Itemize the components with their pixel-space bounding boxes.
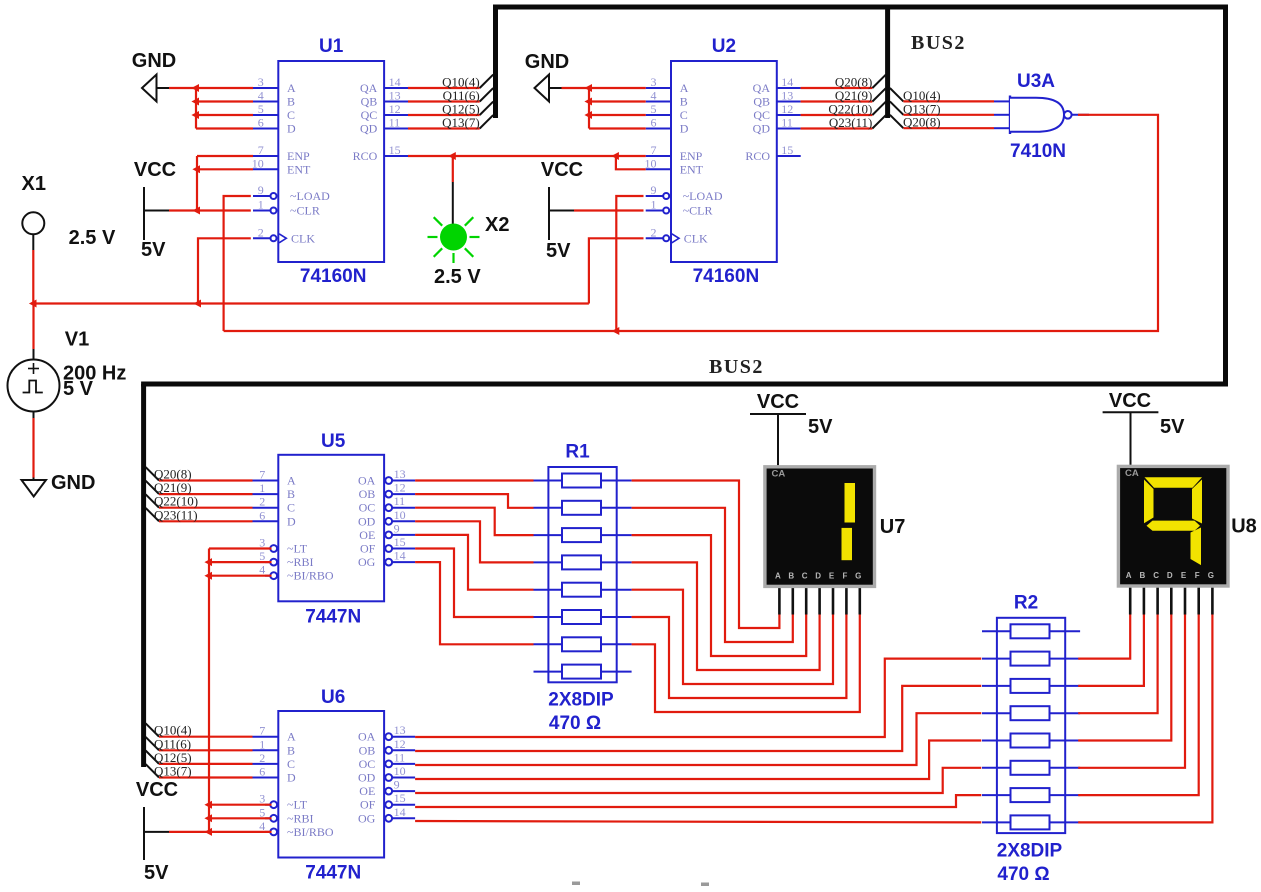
svg-text:B: B: [1140, 571, 1146, 580]
svg-text:C: C: [802, 572, 808, 581]
svg-text:GND: GND: [51, 472, 95, 494]
svg-text:15: 15: [389, 143, 401, 157]
svg-text:7: 7: [651, 143, 657, 157]
svg-text:D: D: [680, 122, 689, 136]
svg-text:13: 13: [394, 467, 406, 481]
svg-text:Q23(11): Q23(11): [154, 507, 198, 522]
svg-text:5V: 5V: [808, 416, 833, 438]
svg-text:VCC: VCC: [136, 779, 178, 801]
svg-text:13: 13: [389, 89, 401, 103]
svg-text:R1: R1: [565, 442, 590, 463]
svg-text:BUS2: BUS2: [911, 32, 966, 54]
svg-text:D: D: [815, 572, 821, 581]
svg-text:GND: GND: [132, 50, 176, 72]
svg-text:CLK: CLK: [684, 231, 708, 245]
svg-text:2: 2: [259, 495, 265, 509]
svg-text:D: D: [287, 771, 296, 785]
svg-text:F: F: [842, 572, 847, 581]
svg-text:RCO: RCO: [353, 149, 378, 163]
svg-text:ENP: ENP: [287, 149, 310, 163]
svg-text:OG: OG: [358, 811, 376, 825]
svg-text:OA: OA: [358, 730, 376, 744]
svg-text:9: 9: [394, 521, 400, 535]
svg-text:C: C: [287, 108, 295, 122]
svg-text:~LOAD: ~LOAD: [683, 189, 723, 203]
svg-text:3: 3: [258, 75, 264, 89]
svg-text:~CLR: ~CLR: [290, 204, 320, 218]
svg-text:A: A: [775, 572, 781, 581]
svg-text:X1: X1: [22, 173, 46, 195]
svg-text:14: 14: [394, 805, 406, 819]
svg-text:12: 12: [781, 102, 793, 116]
svg-text:D: D: [1167, 571, 1173, 580]
svg-text:11: 11: [781, 116, 793, 130]
svg-text:9: 9: [651, 183, 657, 197]
svg-text:12: 12: [394, 737, 406, 751]
svg-text:CA: CA: [1125, 468, 1139, 479]
svg-text:1: 1: [259, 481, 265, 495]
svg-text:U5: U5: [321, 431, 346, 452]
svg-text:C: C: [1153, 571, 1159, 580]
svg-text:ENT: ENT: [680, 162, 704, 176]
svg-text:BUS2: BUS2: [709, 356, 764, 378]
svg-text:C: C: [287, 501, 295, 515]
svg-text:G: G: [855, 572, 861, 581]
svg-text:5: 5: [651, 102, 657, 116]
svg-text:5 V: 5 V: [63, 378, 94, 400]
svg-text:A: A: [1126, 571, 1132, 580]
svg-text:OF: OF: [360, 542, 376, 556]
svg-text:9: 9: [258, 183, 264, 197]
svg-text:D: D: [287, 514, 296, 528]
svg-text:~LT: ~LT: [287, 798, 308, 812]
svg-text:Q23(11): Q23(11): [829, 115, 873, 130]
svg-text:3: 3: [651, 75, 657, 89]
svg-text:B: B: [287, 743, 295, 757]
svg-text:5V: 5V: [546, 240, 571, 262]
svg-text:A: A: [680, 81, 689, 95]
svg-text:CLK: CLK: [291, 231, 315, 245]
svg-text:U7: U7: [880, 516, 906, 538]
svg-text:B: B: [287, 95, 295, 109]
svg-text:OG: OG: [358, 555, 376, 569]
svg-text:~CLR: ~CLR: [683, 204, 713, 218]
svg-text:7: 7: [259, 724, 265, 738]
svg-text:B: B: [680, 95, 688, 109]
svg-text:470 Ω: 470 Ω: [549, 713, 601, 734]
svg-text:X2: X2: [485, 214, 509, 236]
svg-text:~LT: ~LT: [287, 542, 308, 556]
svg-text:OF: OF: [360, 798, 376, 812]
svg-text:OD: OD: [358, 514, 376, 528]
svg-text:OB: OB: [359, 743, 376, 757]
svg-text:10: 10: [394, 508, 406, 522]
svg-text:74160N: 74160N: [300, 266, 367, 287]
svg-text:15: 15: [394, 535, 406, 549]
svg-text:U1: U1: [319, 36, 344, 57]
svg-text:B: B: [788, 572, 794, 581]
svg-text:7: 7: [259, 468, 265, 482]
svg-text:5V: 5V: [144, 862, 169, 884]
svg-text:D: D: [287, 122, 296, 136]
svg-text:C: C: [287, 757, 295, 771]
svg-text:Q13(7): Q13(7): [154, 764, 192, 779]
svg-text:QC: QC: [753, 108, 770, 122]
svg-text:U8: U8: [1231, 516, 1257, 538]
svg-text:470 Ω: 470 Ω: [997, 864, 1049, 885]
svg-text:2.5 V: 2.5 V: [434, 266, 481, 288]
svg-text:14: 14: [781, 75, 793, 89]
svg-text:15: 15: [394, 791, 406, 805]
svg-text:2: 2: [651, 225, 657, 239]
svg-text:V1: V1: [65, 329, 89, 351]
svg-text:QB: QB: [361, 95, 378, 109]
svg-text:OA: OA: [358, 474, 376, 488]
svg-text:2.5 V: 2.5 V: [69, 227, 116, 249]
svg-text:~LOAD: ~LOAD: [290, 189, 330, 203]
svg-text:5V: 5V: [141, 239, 166, 261]
svg-text:7447N: 7447N: [305, 863, 361, 884]
svg-text:A: A: [287, 730, 296, 744]
svg-text:6: 6: [259, 508, 265, 522]
svg-text:6: 6: [259, 765, 265, 779]
svg-text:E: E: [829, 572, 835, 581]
svg-text:QA: QA: [360, 81, 378, 95]
svg-text:A: A: [287, 81, 296, 95]
svg-text:VCC: VCC: [1109, 390, 1151, 412]
svg-text:U6: U6: [321, 687, 345, 708]
svg-text:QD: QD: [753, 122, 771, 136]
svg-text:11: 11: [389, 116, 401, 130]
svg-text:15: 15: [781, 143, 793, 157]
svg-text:13: 13: [781, 89, 793, 103]
svg-text:12: 12: [394, 481, 406, 495]
svg-text:10: 10: [645, 156, 657, 170]
svg-text:4: 4: [651, 89, 657, 103]
svg-text:2X8DIP: 2X8DIP: [548, 690, 614, 711]
svg-text:7: 7: [258, 143, 264, 157]
svg-text:VCC: VCC: [757, 391, 799, 413]
svg-text:A: A: [287, 474, 296, 488]
svg-text:9: 9: [394, 778, 400, 792]
svg-text:10: 10: [252, 156, 264, 170]
svg-text:OC: OC: [359, 757, 376, 771]
svg-text:74160N: 74160N: [693, 266, 760, 287]
svg-text:QC: QC: [361, 108, 378, 122]
svg-text:OE: OE: [359, 784, 375, 798]
svg-text:13: 13: [394, 723, 406, 737]
svg-text:7447N: 7447N: [305, 606, 361, 627]
svg-text:14: 14: [389, 75, 401, 89]
svg-text:RCO: RCO: [745, 149, 770, 163]
svg-text:1: 1: [259, 737, 265, 751]
svg-text:~BI/RBO: ~BI/RBO: [287, 825, 334, 839]
svg-text:QD: QD: [360, 122, 378, 136]
svg-text:ENP: ENP: [680, 149, 703, 163]
svg-text:R2: R2: [1014, 592, 1038, 613]
svg-text:1: 1: [258, 198, 264, 212]
svg-text:CA: CA: [772, 469, 786, 480]
svg-text:Q13(7): Q13(7): [442, 115, 480, 130]
svg-text:~BI/RBO: ~BI/RBO: [287, 569, 334, 583]
svg-text:11: 11: [394, 750, 406, 764]
svg-text:Q20(8): Q20(8): [903, 115, 941, 130]
svg-text:12: 12: [389, 102, 401, 116]
svg-text:14: 14: [394, 549, 406, 563]
svg-text:10: 10: [394, 764, 406, 778]
svg-text:B: B: [287, 487, 295, 501]
svg-text:U3A: U3A: [1017, 71, 1055, 92]
svg-text:7410N: 7410N: [1010, 141, 1066, 162]
svg-text:U2: U2: [712, 36, 736, 57]
svg-text:QA: QA: [753, 81, 771, 95]
svg-text:2: 2: [258, 225, 264, 239]
svg-text:11: 11: [394, 494, 406, 508]
svg-text:C: C: [680, 108, 688, 122]
svg-text:1: 1: [651, 198, 657, 212]
svg-text:ENT: ENT: [287, 162, 311, 176]
svg-text:OD: OD: [358, 771, 376, 785]
svg-text:G: G: [1208, 571, 1214, 580]
svg-text:QB: QB: [753, 95, 770, 109]
svg-text:OC: OC: [359, 501, 376, 515]
svg-text:2: 2: [259, 751, 265, 765]
svg-text:4: 4: [258, 89, 264, 103]
svg-text:E: E: [1181, 571, 1187, 580]
svg-text:6: 6: [258, 116, 264, 130]
svg-text:2X8DIP: 2X8DIP: [997, 840, 1063, 861]
svg-text:5V: 5V: [1160, 416, 1185, 438]
svg-text:6: 6: [651, 116, 657, 130]
svg-text:F: F: [1195, 571, 1200, 580]
svg-text:VCC: VCC: [134, 159, 176, 181]
svg-text:~RBI: ~RBI: [287, 555, 314, 569]
svg-text:5: 5: [258, 102, 264, 116]
svg-text:VCC: VCC: [541, 159, 583, 181]
svg-text:OB: OB: [359, 487, 376, 501]
svg-text:OE: OE: [359, 528, 375, 542]
svg-text:GND: GND: [525, 51, 569, 73]
svg-text:~RBI: ~RBI: [287, 811, 314, 825]
